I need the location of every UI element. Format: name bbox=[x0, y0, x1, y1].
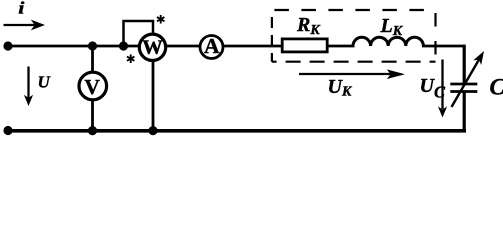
wire: wattmeter to bottom rail bbox=[152, 61, 155, 131]
wire: bottom rail bbox=[8, 129, 466, 133]
arrow i (current direction) bbox=[4, 20, 46, 31]
junction: wattmeter voltage-coil tap on top rail bbox=[119, 41, 128, 50]
svg-text:i: i bbox=[18, 0, 25, 18]
svg-text:C: C bbox=[490, 75, 503, 100]
svg-text:U: U bbox=[38, 73, 51, 92]
inductor LK bbox=[353, 37, 423, 46]
capacitor C plate (top) bbox=[450, 83, 477, 86]
dashed box (coil equivalent circuit) bbox=[272, 10, 436, 62]
polarity asterisk (left of wattmeter, current coil) bbox=[127, 54, 134, 63]
wire: voltmeter branch lower segment bbox=[91, 100, 94, 131]
arrow: variable-capacitor adjustment bbox=[452, 51, 485, 107]
voltmeter V bbox=[79, 72, 107, 100]
svg-text:A: A bbox=[204, 34, 220, 58]
capacitor C plate (bottom) bbox=[450, 90, 477, 93]
wire: top rail bbox=[8, 45, 355, 48]
svg-text:V: V bbox=[84, 75, 100, 99]
junction: voltmeter tap on top rail bbox=[88, 41, 97, 50]
arrow UC (voltage across capacitor) bbox=[438, 60, 447, 118]
node: input terminal (bottom-left) bbox=[3, 126, 12, 135]
ammeter A bbox=[200, 34, 223, 59]
wire: capacitor to bottom rail bbox=[463, 93, 466, 133]
resistor RK bbox=[282, 39, 327, 52]
junction: wattmeter branch on bottom rail bbox=[148, 126, 157, 135]
wire: wattmeter voltage-coil bracket bbox=[124, 21, 154, 46]
wattmeter W bbox=[139, 34, 165, 60]
junction: voltmeter branch on bottom rail bbox=[88, 126, 97, 135]
node: input terminal (top-left) bbox=[3, 41, 12, 50]
wire: voltmeter branch upper segment bbox=[91, 46, 94, 73]
polarity asterisk (top, voltage coil) bbox=[157, 15, 164, 24]
arrow U (input voltage) bbox=[24, 67, 33, 107]
wire: right vertical (top rail to capacitor) bbox=[463, 45, 466, 83]
arrow UK (voltage across coil) bbox=[299, 69, 405, 79]
svg-text:W: W bbox=[142, 36, 163, 58]
